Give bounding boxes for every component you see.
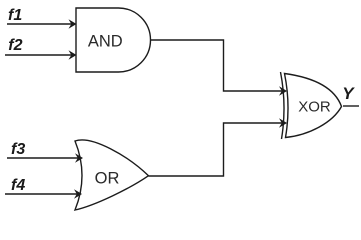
wire f1 input (7, 19, 77, 29)
wire f4 input (5, 189, 82, 199)
XOR gate U3 body (285, 74, 342, 138)
svg-text:OR: OR (95, 169, 120, 187)
wire f3 input (7, 153, 83, 163)
OR gate U2 (75, 140, 149, 210)
wire AND output to XOR top input (151, 40, 288, 96)
XOR gate U3 outer input arc (281, 72, 285, 139)
svg-text:f2: f2 (8, 37, 22, 54)
svg-text:f3: f3 (11, 141, 25, 158)
wire f2 input (5, 50, 77, 60)
wire XOR output Y (343, 105, 359, 107)
svg-text:AND: AND (88, 32, 123, 50)
svg-text:Y: Y (342, 84, 355, 103)
svg-text:XOR: XOR (298, 99, 331, 116)
svg-text:f4: f4 (11, 177, 25, 194)
wire OR output to XOR bottom input (149, 118, 288, 176)
AND gate U1 (76, 8, 151, 72)
svg-text:f1: f1 (8, 7, 22, 24)
